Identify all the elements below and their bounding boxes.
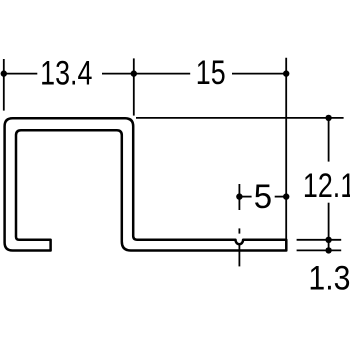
dot middle [131, 70, 137, 76]
svg-text:15: 15 [196, 54, 226, 92]
profile outline (sheet-metal channel with foot lip and right flange) [5, 118, 287, 250]
centerline through notch (dash-dot) [238, 228, 240, 233]
dimension 12.1: vertical dimension line [328, 118, 330, 162]
dimension 1.3: top tick line [297, 239, 342, 241]
svg-text:1.3: 1.3 [308, 259, 350, 297]
dimension 13.4: extension line left [3, 59, 5, 111]
dot 5 left [236, 193, 242, 199]
dimension line 15 [232, 73, 286, 75]
dot 12.1 top [325, 115, 331, 121]
dot 5 right [283, 193, 289, 199]
dot 1.3 top [325, 237, 331, 243]
dimension 13.4/15: extension line middle [133, 58, 135, 115]
svg-text:13.4: 13.4 [40, 55, 92, 93]
dimension 1.3: bottom tick line [297, 249, 342, 251]
dimension 15/5: extension line right (down to flange end) [285, 58, 287, 251]
dimension 5: left tick [238, 184, 240, 210]
dot 1.3 bottom [325, 247, 331, 253]
dimension 12.1: horizontal extension line from profile top [136, 117, 344, 119]
dot right [283, 70, 289, 76]
dimension 5: dimension line [239, 196, 251, 198]
svg-text:12.1: 12.1 [303, 167, 350, 205]
svg-text:5: 5 [254, 179, 272, 217]
dimension line 13.4 [4, 73, 38, 75]
dot left [1, 70, 7, 76]
